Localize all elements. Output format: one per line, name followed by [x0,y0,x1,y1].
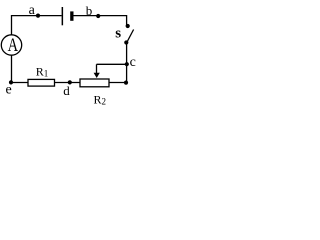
switch upper terminal dot [126,24,130,28]
rheostat wiper arrow [94,73,100,78]
node a junction dot [36,14,40,18]
wire left vertical below ammeter [11,55,13,82]
svg-text:A: A [8,35,19,56]
wire left vertical above ammeter [11,15,13,35]
node e junction dot [9,80,13,84]
ammeter A1 circle [1,35,21,55]
wire right vertical from switch through c to bottom junction [126,43,128,83]
wire right vertical from top corner to switch [126,15,128,26]
wire top from battery to right corner [73,15,126,17]
rheostat R2 body [80,79,109,87]
node d junction dot [68,80,72,84]
rheostat wiper wire to node c [97,63,127,65]
wire bottom from e to R1 [12,82,29,84]
switch s blade [127,30,134,43]
node c junction dot [125,62,129,66]
battery short plate [70,11,73,20]
battery long plate [62,7,64,25]
wire bottom from R1 to R2 [55,82,81,84]
svg-text:b: b [86,3,93,18]
svg-text:e: e [6,83,12,98]
svg-text:s: s [115,25,121,41]
svg-text:d: d [63,83,70,98]
switch lower terminal dot [124,40,128,44]
resistor R1 body [28,79,55,86]
wire top from left corner to battery [12,15,62,17]
svg-text:a: a [29,3,36,18]
rheostat wiper stem [96,64,98,73]
wire bottom from R2 to right junction [109,82,127,84]
node b junction dot [96,14,100,18]
junction dot R2 right [124,81,128,85]
svg-text:c: c [130,55,136,70]
